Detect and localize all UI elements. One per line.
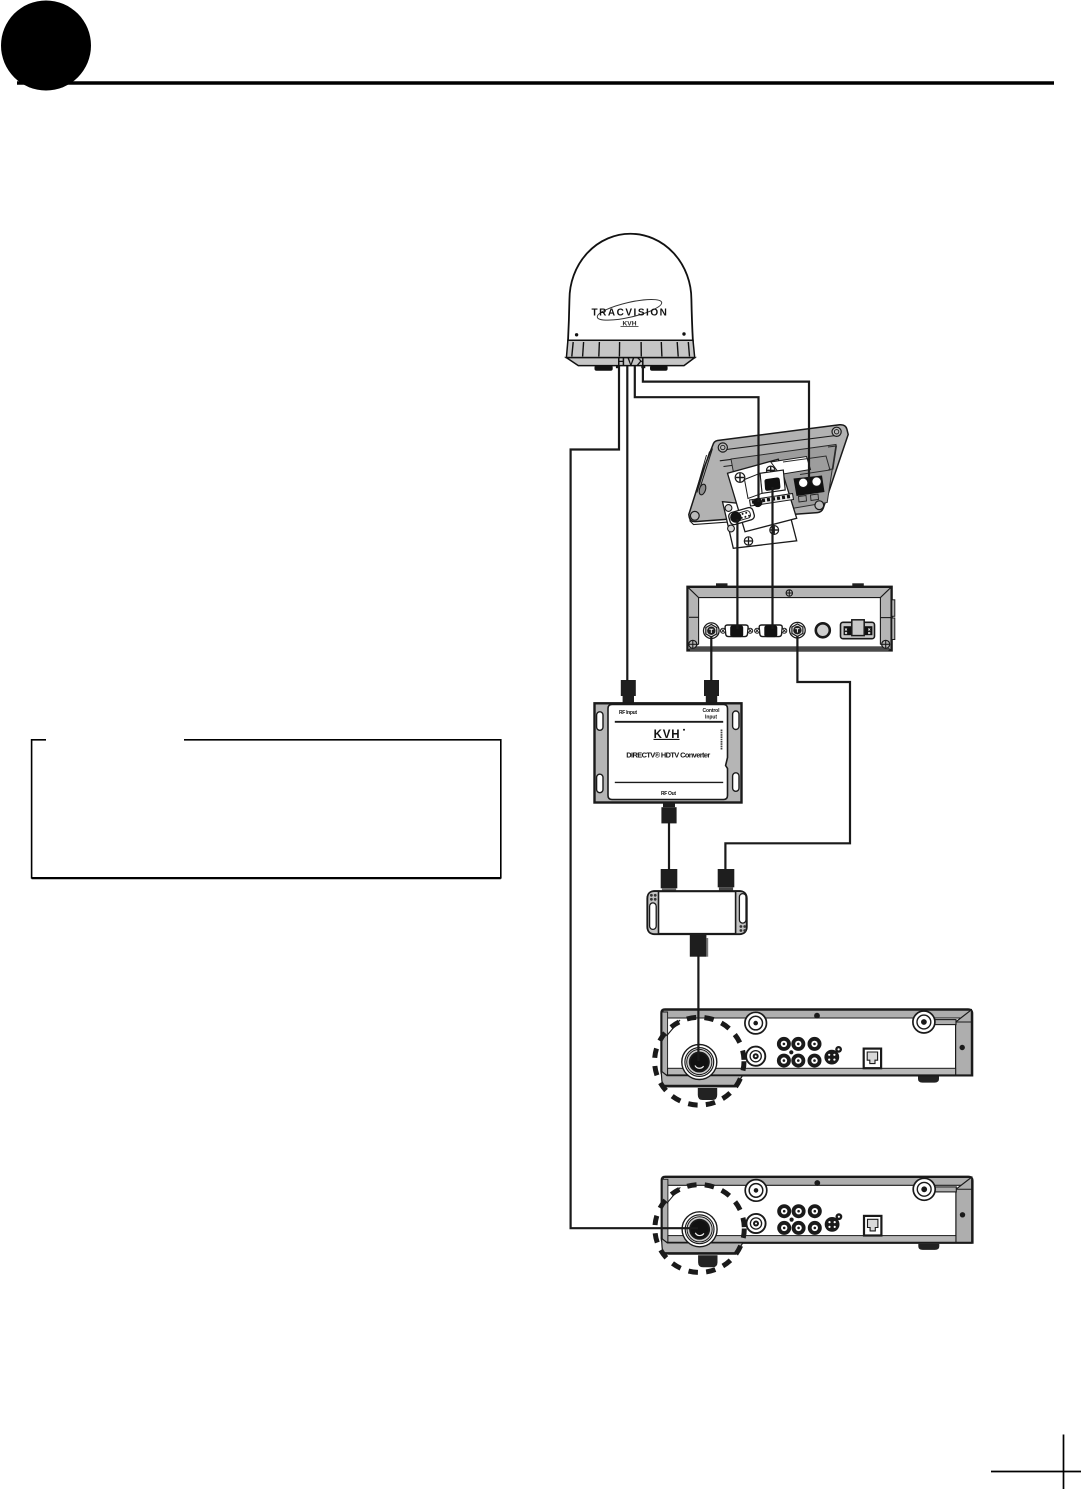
phillips screw upper-right [767,466,775,474]
wire antenna RF2 to receiver B [571,366,698,1228]
svg-text:TRACVISION: TRACVISION [592,307,668,318]
S-video connector [825,1213,843,1232]
left cap [648,891,659,934]
right gray band [880,587,891,650]
phillips screw upper-left [735,473,745,483]
RCA jack cluster [777,1037,822,1068]
F-connector RF2 [790,622,806,638]
top screw [786,590,792,596]
plate silhouette [689,425,848,522]
control input plug [704,680,719,704]
wire converter RF out to diplexer [668,822,670,870]
satellite-in F connector [682,1045,717,1080]
converter chassis [595,703,742,802]
jack housing [760,470,785,493]
bottom band [668,1068,956,1075]
round button [816,623,830,637]
power terminal block [794,476,825,497]
plate top seam lines [719,435,840,451]
top gray band [663,1010,971,1018]
data cable lug [753,498,762,507]
DB9 port 2 [755,625,787,637]
right gray panel [956,1010,972,1076]
wire antenna data to interface plate [635,366,759,502]
dome feet [595,365,613,370]
chassis [662,1177,973,1243]
right cap [736,891,747,934]
svg-text:DIRECTV® HDTV Converter: DIRECTV® HDTV Converter [626,750,710,759]
svg-text:RF Out: RF Out [661,791,676,797]
left gray edge [662,1012,668,1075]
wire antenna power to interface plate [643,366,809,482]
lower-left front face [661,1071,742,1087]
corner boss bottom-left [690,511,699,520]
F-connector RF1 [704,623,720,639]
upper white bracket [728,459,797,532]
top band screw [814,1180,820,1186]
satellite-in F connector [682,1212,717,1247]
lower-left front face [662,1238,743,1254]
bracket screw bottom-left [744,537,752,545]
corner bevel line [667,1187,681,1203]
chassis [661,1009,972,1075]
right flange slot bottom [733,773,739,792]
RCA jack cluster [777,1204,822,1235]
DB9 port 1 [721,625,753,637]
bottom rule [615,781,723,783]
highlight dashed circle [655,1017,744,1105]
wire diplexer out to receiver A [697,955,699,1061]
top gray band [663,1178,971,1186]
mounting tab right [852,583,864,587]
rivet dots [575,333,578,336]
dome shell [568,234,693,341]
converter faceplate [608,705,728,800]
bottom-left corner screw [689,640,697,648]
plate left hatch lines [700,449,713,490]
plate side wall lower-left [690,521,741,525]
diplexer input plug left [661,869,678,888]
header rule [17,81,1054,85]
RF in connector top [745,1012,767,1034]
RF out connector top-right [913,1011,956,1033]
diplexer body [648,891,747,934]
svg-text:Input: Input [705,715,717,721]
svg-text:KVH: KVH [617,356,644,368]
corner boss top-left [718,443,727,452]
diplexer input plug right [718,869,735,887]
wire antenna RF1 down to converter RF input [626,366,628,681]
power block lower tabs [799,496,807,503]
bottom dark bar [690,646,889,651]
corner bevel line [667,1020,681,1036]
chapter number bullet [1,1,91,91]
top gray band [688,587,891,597]
RF in connector top [745,1180,767,1202]
small screw left of DB9 [725,505,732,512]
left foot [698,1088,717,1100]
plate inner recess [731,445,836,518]
top rule [615,721,723,723]
chassis body [687,587,892,651]
left gray band [688,587,699,650]
note box [32,740,501,878]
right side flange pieces [892,600,895,617]
mounting tab left [716,583,728,587]
right gray panel [956,1177,972,1243]
right foot [918,1244,939,1250]
right inner structure lines [783,456,830,475]
left gray edge [662,1179,668,1242]
left foot [698,1255,717,1267]
crop mark bottom-right [991,1471,1081,1473]
bottom band [668,1236,956,1243]
RF out connector top-right [913,1178,956,1200]
part number vertical [721,730,723,750]
bottom-right corner screw [882,640,890,648]
terminal strip [750,494,794,507]
top band screw [814,1013,820,1019]
highlight dashed circle [655,1185,744,1273]
DB9 cable lug [730,512,741,523]
dome base band [566,340,694,357]
phone jack [864,1216,881,1236]
right foot [918,1076,939,1082]
RF out plug [661,803,676,824]
wire plate DB9 to controller [736,519,738,629]
power terminal left [799,478,808,487]
jack black port [764,477,780,490]
dome base trapezoid [566,358,694,366]
right flange slot top [733,711,739,730]
base band ticks [572,342,690,357]
RF input plug [621,680,636,704]
TracVision swoosh [596,295,664,324]
power terminal right [812,477,821,486]
lower white bracket [723,502,797,549]
S-video connector [824,1046,842,1065]
aux RF connector [746,1214,765,1233]
svg-text:RF Input: RF Input [619,710,637,716]
left flange slot top [597,712,603,731]
corner boss top-right [832,427,841,436]
diplexer output plug [690,934,707,957]
corner boss bottom-right [815,501,824,510]
wire plate jack to controller [771,487,773,629]
bracket screw lower [770,526,779,535]
phone jack [864,1049,881,1069]
aux RF connector [746,1047,765,1066]
power connector [841,620,875,639]
wire controller RF to converter control input [710,636,712,681]
white shelf right of jack [771,457,811,475]
left flange slot bottom [597,774,603,793]
wire controller RF2 to diplexer [725,636,850,870]
svg-text:Control: Control [703,708,721,714]
DB9 connector on bracket [728,507,755,526]
